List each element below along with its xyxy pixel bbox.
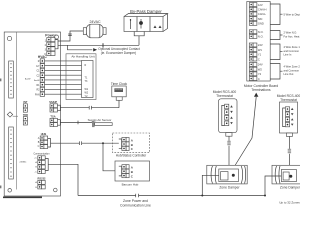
screw hole bottom-left [8, 189, 12, 193]
SS/HP terminal block [49, 100, 60, 112]
svg-text:Thermostat: Thermostat [216, 94, 233, 98]
svg-text:Time Clock: Time Clock [111, 82, 128, 86]
svg-text:CAN-H: CAN-H [258, 8, 267, 12]
svg-text:Up to 32 Zones: Up to 32 Zones [279, 201, 300, 205]
thermostat TH2 [277, 94, 301, 136]
svg-text:W1: W1 [258, 48, 263, 52]
svg-text:24VAC: 24VAC [20, 160, 27, 163]
edge speck 2 [0, 186, 1, 189]
screw hole bottom-right [54, 188, 58, 192]
svg-text:INT: INT [23, 101, 28, 104]
wire TH2 to damper [288, 136, 290, 169]
svg-text:N.O.: N.O. [258, 30, 264, 34]
by-pass damper [124, 9, 168, 36]
screw hole top-left [7, 36, 11, 40]
wire bus to damper 1 [201, 195, 203, 197]
svg-text:CAN-L: CAN-L [258, 12, 267, 16]
RS232 terminal block [35, 176, 46, 189]
svg-text:Zone Damper: Zone Damper [280, 186, 300, 190]
bracket 5 wire [270, 4, 282, 25]
svg-text:Line In: Line In [284, 53, 292, 57]
svg-text:Communication Line: Communication Line [120, 204, 151, 208]
motor controller board terminations [244, 2, 278, 93]
svg-text:and Common: and Common [284, 68, 300, 72]
bracket 2 wire [270, 31, 282, 40]
svg-text:4 Wire Zone 2: 4 Wire Zone 2 [284, 65, 301, 69]
svg-text:(ie. Economizer Damper): (ie. Economizer Damper) [101, 51, 136, 55]
inner board rail [15, 32, 17, 190]
svg-text:Y1: Y1 [258, 53, 262, 57]
board bottom heavy edge [3, 196, 42, 198]
svg-text:Terminations: Terminations [251, 88, 271, 92]
svg-text:Power: Power [45, 33, 56, 37]
connector strip J2 [9, 127, 14, 179]
wire TSA to supply air sensor [60, 121, 92, 123]
wire terminations to zone damper 1 [233, 97, 257, 170]
svg-text:R: R [38, 60, 40, 63]
connector strip J1 [9, 61, 14, 98]
Power terminal block [44, 33, 56, 56]
svg-text:N.O.: N.O. [258, 35, 264, 39]
svg-text:AuxW: AuxW [25, 78, 30, 81]
HVAC terminal block [34, 55, 47, 96]
svg-text:Zone Damper: Zone Damper [219, 185, 240, 189]
svg-text:Communication: Communication [34, 153, 51, 156]
svg-text:-C: -C [34, 171, 37, 173]
junction node [102, 142, 104, 144]
wire break slash [68, 34, 72, 36]
svg-text:C: C [258, 77, 260, 81]
bracket zone 1 [270, 44, 282, 60]
svg-text:12V: 12V [258, 3, 263, 7]
svg-text:5 Wire to Display: 5 Wire to Display [284, 12, 301, 16]
edge speck 1 [0, 79, 1, 82]
bracket zone 2 [270, 64, 282, 80]
svg-text:FAN: FAN [35, 93, 40, 96]
diamond cutout [7, 112, 12, 117]
wire break tick [102, 43, 104, 47]
INT terminal block [23, 101, 28, 112]
zone damper D1 [207, 165, 247, 189]
arrow to terminations [254, 93, 258, 97]
screw hole top-right [55, 35, 59, 39]
svg-text:Supply Air Sensor: Supply Air Sensor [88, 118, 112, 122]
wire HUB to hub/status controller [51, 142, 119, 144]
air handling unit [66, 54, 96, 100]
svg-text:For Aux. Heat: For Aux. Heat [284, 34, 300, 38]
wire to optional contact [68, 45, 93, 50]
thermostat TH1 [213, 90, 237, 136]
Communication terminal block [20, 153, 51, 174]
svg-text:HUB: HUB [41, 132, 47, 136]
wire damper stem [138, 36, 140, 46]
svg-text:AuxW: AuxW [34, 79, 39, 82]
wire bus to damper 2 [264, 195, 266, 197]
svg-text:GND: GND [258, 22, 264, 26]
svg-text:Air Handling Unit: Air Handling Unit [71, 55, 94, 59]
svg-text:and Common: and Common [284, 49, 300, 53]
controller board outline [4, 32, 60, 196]
zone power bus [78, 195, 265, 197]
svg-text:24V: 24V [258, 43, 263, 47]
svg-text:SIN: SIN [258, 17, 263, 21]
svg-text:SS/HP: SS/HP [49, 100, 57, 104]
wire break cap [89, 106, 92, 109]
svg-text:Line Out: Line Out [284, 72, 294, 76]
svg-text:R: R [85, 64, 87, 67]
wire power to transformer [58, 31, 84, 41]
svg-text:Zone Power and: Zone Power and [123, 199, 148, 203]
time clock [111, 82, 128, 100]
HUB terminal block [38, 132, 51, 148]
rail tick at diamond [13, 115, 18, 117]
svg-text:GY: GY [36, 65, 40, 68]
wire SS/HP to time clock [60, 100, 119, 107]
svg-text:Barcom Hub: Barcom Hub [122, 182, 139, 186]
svg-text:Y2: Y2 [258, 72, 262, 76]
svg-text:RS232: RS232 [38, 176, 46, 180]
supply air sensor [88, 118, 113, 127]
hub/status controller (dashed) [113, 133, 150, 158]
svg-text:4 Wire Zone 1: 4 Wire Zone 1 [284, 45, 301, 49]
TDB terminal block [23, 114, 28, 125]
svg-text:C: C [38, 145, 40, 148]
TSA terminal block [50, 115, 60, 127]
svg-text:Hub/Status Controller: Hub/Status Controller [116, 154, 147, 158]
wire TH1 to damper [228, 136, 230, 169]
svg-text:TSA: TSA [50, 115, 55, 119]
svg-text:W2: W2 [258, 67, 263, 71]
arrowhead [93, 48, 97, 51]
wires HVAC to AHU [45, 61, 82, 94]
wire branch to barcom hub [103, 143, 119, 171]
transformer T1 24VAC [83, 20, 106, 38]
barcom hub [115, 161, 150, 186]
svg-text:Thermostat: Thermostat [280, 98, 297, 102]
zone damper D2 [272, 165, 310, 189]
wire power to bypass damper [58, 44, 139, 46]
wire communication to bus [48, 164, 78, 195]
svg-text:2 Wire N.O.: 2 Wire N.O. [284, 31, 298, 35]
svg-text:24V: 24V [258, 63, 263, 67]
svg-text:+C: +C [34, 158, 37, 160]
svg-text:24VAC: 24VAC [89, 20, 101, 24]
svg-text:C: C [258, 57, 260, 61]
power connector bracket [55, 40, 58, 49]
